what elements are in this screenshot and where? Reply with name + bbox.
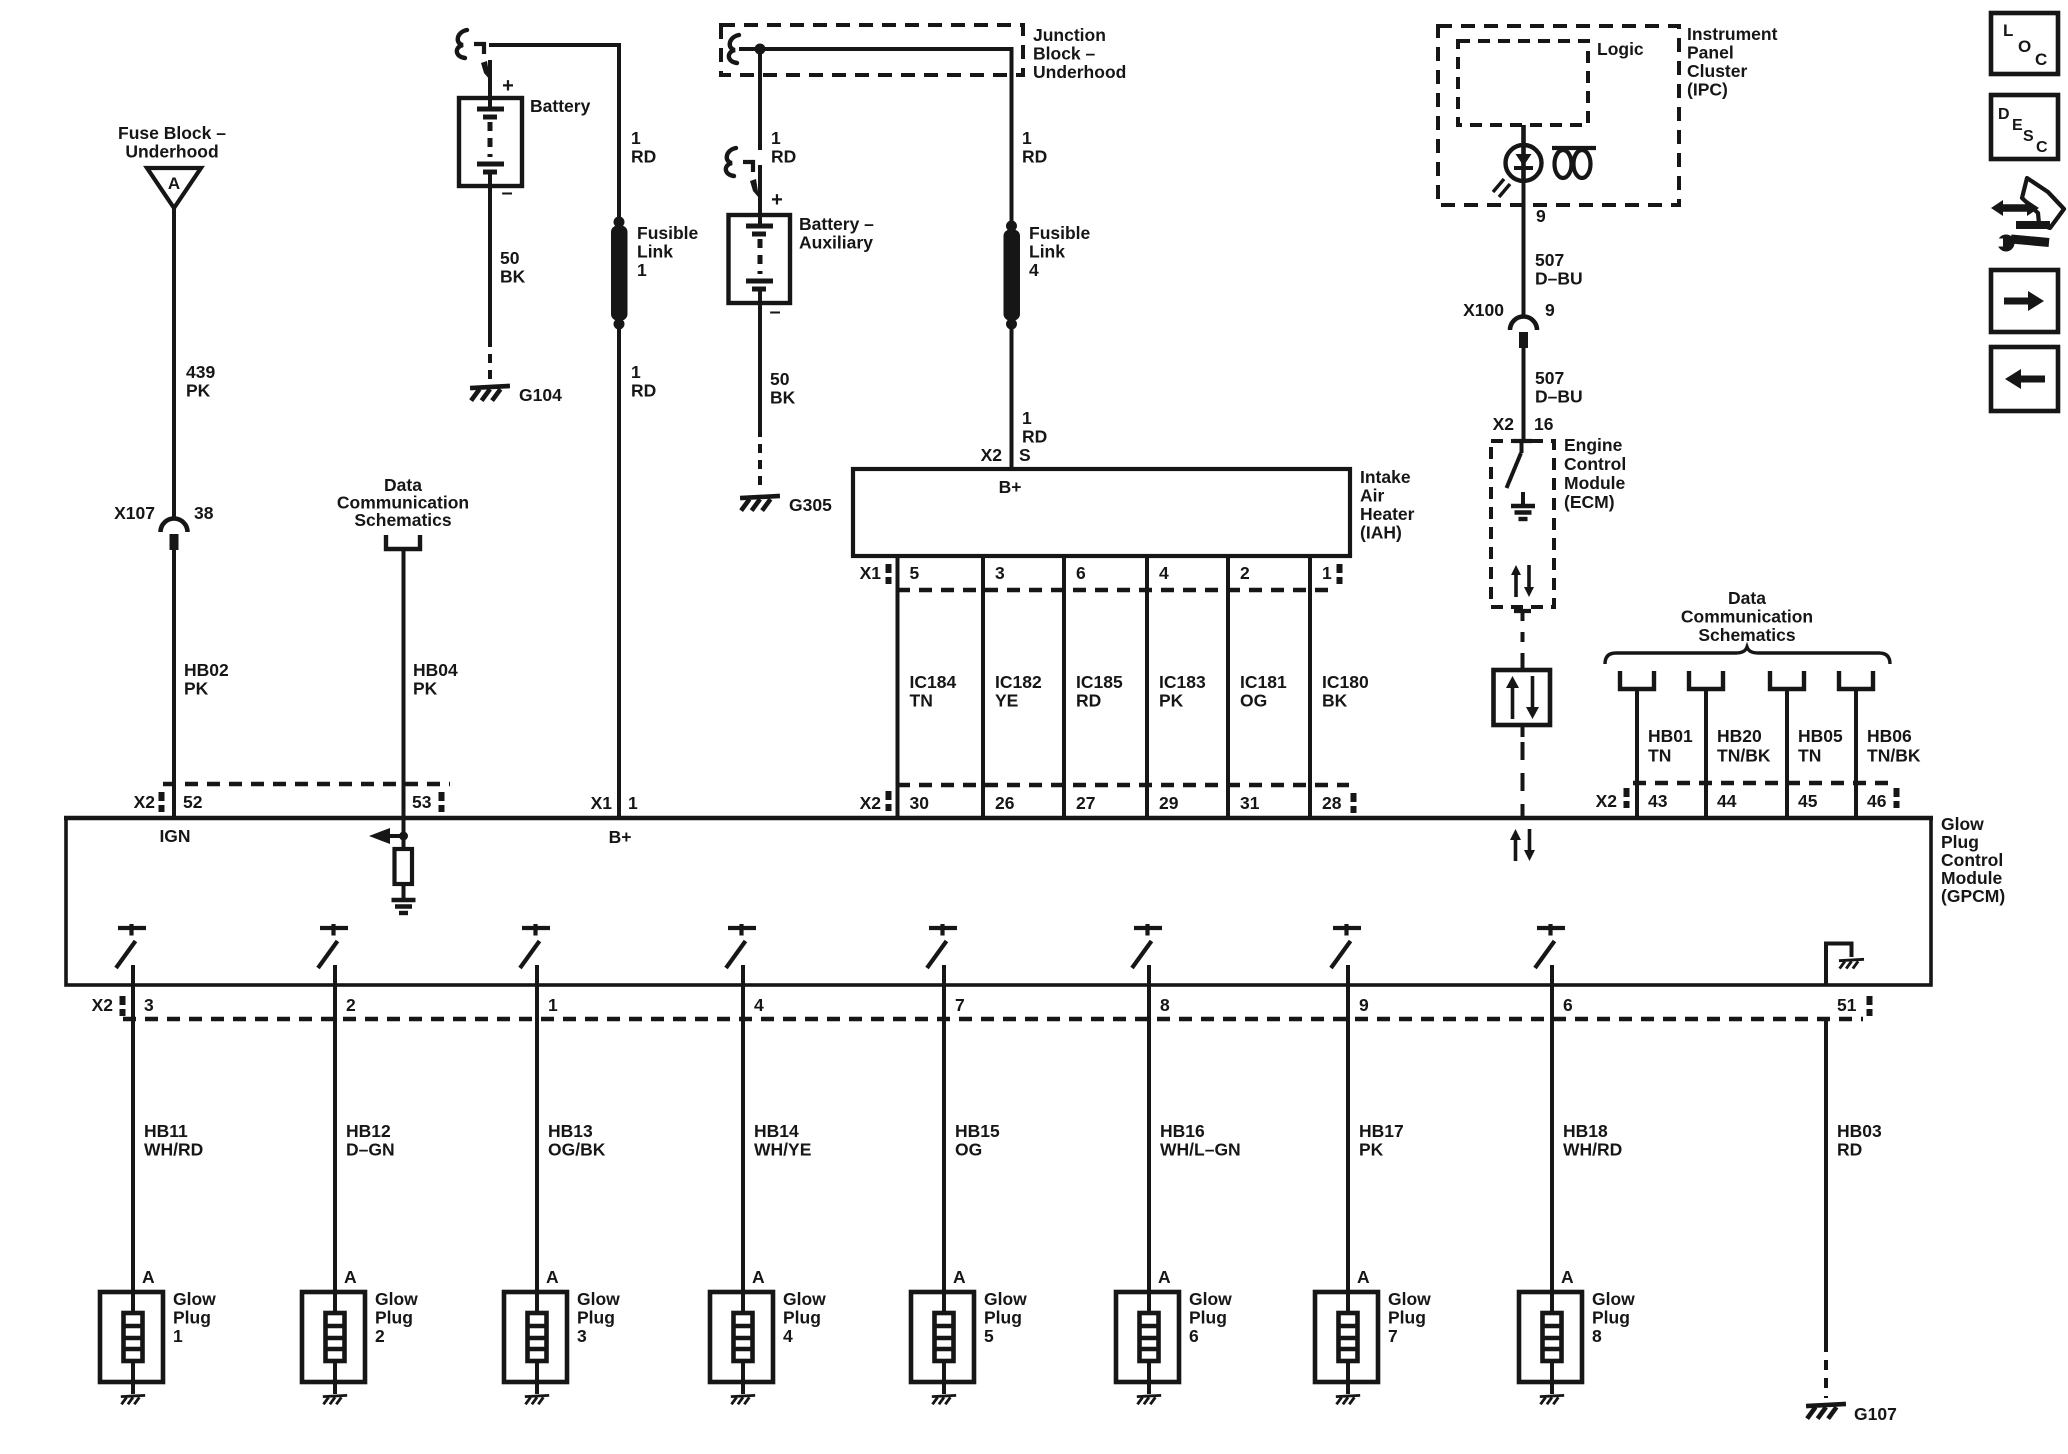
svg-text:Module: Module [1564,473,1626,493]
svg-text:IC183: IC183 [1159,672,1206,692]
svg-text:B+: B+ [609,827,632,847]
svg-text:–: – [501,182,512,204]
GPCM output switch 4 [728,926,756,930]
svg-text:2: 2 [375,1326,385,1346]
svg-text:9: 9 [1545,300,1555,320]
svg-text:X1: X1 [591,793,613,813]
glow plug 1 [100,1292,163,1382]
svg-text:A: A [752,1267,765,1287]
next icon (right arrow) [1991,270,2058,332]
wire IC182 to GPCM pin 26 [981,785,985,818]
svg-text:Underhood: Underhood [1033,62,1126,82]
wire 439 PK [172,208,176,519]
svg-text:7: 7 [955,995,965,1015]
glow plug 4 ground [731,1395,755,1404]
svg-text:X1: X1 [860,563,882,583]
glow plug 2 ground [323,1395,347,1404]
svg-text:52: 52 [183,792,203,812]
svg-text:IC182: IC182 [995,672,1042,692]
svg-text:X107: X107 [114,503,155,523]
wire HB20 TN/BK [1704,689,1708,783]
ECM pin tick [1513,439,1532,443]
svg-text:HB20: HB20 [1717,726,1762,746]
GPCM output switch 3 [522,926,550,930]
glow plug control module (GPCM) box [66,818,1931,985]
svg-text:Control: Control [1941,850,2003,870]
svg-text:3: 3 [144,995,154,1015]
svg-text:X100: X100 [1463,300,1504,320]
wire HB12 D–GN (glow plug 2) [333,985,337,1313]
svg-text:A: A [1357,1267,1370,1287]
svg-text:38: 38 [194,503,214,523]
svg-text:WH/L–GN: WH/L–GN [1160,1140,1241,1160]
junction block - underhood (dashed) [721,25,1023,75]
ECM internal ground [1521,492,1525,505]
svg-text:IC180: IC180 [1322,672,1369,692]
IAH pin 6 wire [1062,556,1066,590]
svg-text:Logic: Logic [1597,39,1644,59]
svg-text:3: 3 [577,1326,587,1346]
svg-text:S: S [1019,445,1031,465]
wire 507 D-BU to ECM [1522,348,1526,441]
interrupt symbol (battery auxiliary feed) [726,148,736,176]
svg-text:507: 507 [1535,250,1564,270]
svg-text:S: S [2023,128,2034,145]
svg-text:(IAH): (IAH) [1360,523,1402,543]
svg-text:OG: OG [1240,691,1267,711]
svg-text:Fuse Block –: Fuse Block – [118,123,226,143]
svg-text:50: 50 [770,369,790,389]
svg-text:Glow: Glow [375,1289,418,1309]
svg-text:1: 1 [548,995,558,1015]
svg-text:Auxiliary: Auxiliary [799,233,873,253]
svg-text:TN: TN [1798,746,1821,766]
svg-text:Plug: Plug [375,1308,413,1328]
svg-text:Link: Link [637,242,673,262]
svg-text:507: 507 [1535,368,1564,388]
svg-text:RD: RD [1837,1140,1862,1160]
ECM bottom pin tick [1514,609,1531,613]
svg-text:Engine: Engine [1564,435,1623,455]
svg-text:2: 2 [1240,563,1250,583]
glow plug 8 ground [1540,1395,1564,1404]
wire IC183 to GPCM pin 29 [1145,785,1149,818]
svg-text:D–BU: D–BU [1535,269,1583,289]
off-page connector (HB20) [1689,671,1723,689]
svg-text:50: 50 [500,248,520,268]
svg-text:HB06: HB06 [1867,726,1912,746]
battery feed interrupt symbol [457,30,467,58]
svg-text:OG: OG [955,1140,982,1160]
svg-text:A: A [1561,1267,1574,1287]
svg-text:HB04: HB04 [413,660,458,680]
svg-text:8: 8 [1160,995,1170,1015]
svg-text:Plug: Plug [1941,832,1979,852]
svg-text:31: 31 [1240,793,1260,813]
svg-text:27: 27 [1076,793,1095,813]
GPCM output switch 5 [929,926,957,930]
svg-text:A: A [168,174,180,193]
fusible link 4 [1006,221,1017,232]
GPCM output switch 1 [118,926,146,930]
svg-text:O: O [2018,37,2031,56]
svg-text:6: 6 [1076,563,1086,583]
wire HB06 to GPCM pin 46 [1854,783,1858,818]
svg-text:1: 1 [637,260,647,280]
wire to battery auxiliary [758,49,762,150]
wire HB20 to GPCM pin 44 [1704,783,1708,818]
svg-text:26: 26 [995,793,1015,813]
glow plug 4 [710,1292,773,1382]
wire HB11 WH/RD (glow plug 1) [131,985,135,1313]
wire HB16 WH/L–GN (glow plug 6) [1147,985,1151,1313]
svg-text:Plug: Plug [1388,1308,1426,1328]
svg-text:(ECM): (ECM) [1564,492,1615,512]
svg-text:OG/BK: OG/BK [548,1140,606,1160]
GPCM output switch 8 [1537,926,1565,930]
glow plug 1 ground [121,1395,145,1404]
svg-text:Glow: Glow [173,1289,216,1309]
svg-text:G305: G305 [789,495,832,515]
svg-text:A: A [953,1267,966,1287]
svg-text:WH/RD: WH/RD [144,1140,203,1160]
svg-text:6: 6 [1563,995,1573,1015]
svg-text:Plug: Plug [577,1308,615,1328]
battery B2 - auxiliary [729,215,791,303]
GPCM output switch 2 [320,926,348,930]
wire battery positive to fusible link 1 [489,43,620,47]
svg-text:Junction: Junction [1033,25,1106,45]
svg-text:16: 16 [1534,414,1554,434]
svg-text:Cluster: Cluster [1687,61,1747,81]
svg-text:YE: YE [995,691,1018,711]
svg-text:RD: RD [631,381,656,401]
indicator light rays [1493,179,1504,192]
svg-text:Schematics: Schematics [354,510,452,530]
svg-text:Module: Module [1941,868,2003,888]
svg-text:X2: X2 [860,793,882,813]
svg-text:Air: Air [1360,486,1385,506]
svg-text:D–GN: D–GN [346,1140,395,1160]
svg-text:A: A [142,1267,155,1287]
glow plug 2 [302,1292,365,1382]
svg-text:BK: BK [770,388,796,408]
svg-text:Glow: Glow [1388,1289,1431,1309]
svg-text:9: 9 [1359,995,1369,1015]
svg-text:1: 1 [631,362,641,382]
GPCM internal serial data arrows [1514,838,1518,861]
svg-text:HB14: HB14 [754,1121,799,1141]
svg-text:X2: X2 [134,792,156,812]
svg-text:BK: BK [500,267,526,287]
svg-text:Plug: Plug [1189,1308,1227,1328]
wire HB03 RD to G107 [1824,1019,1828,1342]
svg-text:1: 1 [173,1326,183,1346]
GPCM output switch 7 [1333,926,1361,930]
wait-to-start indicator lamp [1521,125,1526,146]
IAH pin 3 wire [981,556,985,590]
svg-text:Block –: Block – [1033,44,1096,64]
svg-text:1: 1 [628,793,638,813]
svg-text:1: 1 [1022,408,1032,428]
svg-text:WH/RD: WH/RD [1563,1140,1622,1160]
wire IPC pin 9 [1522,181,1526,318]
engine control module (ECM) dashed box [1491,441,1554,607]
dashed serial data wire [1521,611,1525,658]
wire HB13 OG/BK (glow plug 3) [535,985,539,1313]
wire junction block to fusible link 4 [1010,47,1014,226]
svg-text:6: 6 [1189,1326,1199,1346]
svg-text:RD: RD [1076,691,1101,711]
wire 50 BK to G104 [488,186,492,338]
wire pin 52 to GPCM [172,784,176,818]
glow plug 3 ground [525,1395,549,1404]
svg-text:PK: PK [184,679,209,699]
svg-text:Glow: Glow [984,1289,1027,1309]
wire IC185 RD [1062,590,1066,785]
feed interrupt symbol (junction block) [729,35,739,63]
svg-text:Battery: Battery [530,96,591,116]
svg-text:A: A [546,1267,559,1287]
IAH pin 2 wire [1226,556,1230,590]
svg-text:2: 2 [346,995,356,1015]
wire HB05 TN [1785,689,1789,783]
IAH pin 4 wire [1145,556,1149,590]
svg-text:8: 8 [1592,1326,1602,1346]
wire HB14 WH/YE (glow plug 4) [741,985,745,1313]
svg-text:Fusible: Fusible [1029,223,1091,243]
svg-text:28: 28 [1322,793,1342,813]
wire IC183 PK [1145,590,1149,785]
svg-text:1: 1 [771,128,781,148]
wire IC181 to GPCM pin 31 [1226,785,1230,818]
GPCM pin 53 pull-up arrow [402,818,406,849]
IAH pin 5 wire [896,556,900,590]
wire 1 RD to GPCM pin X1 1 [617,324,621,818]
svg-text:1: 1 [1022,128,1032,148]
wire HB05 to GPCM pin 45 [1785,783,1789,818]
svg-text:Intake: Intake [1360,467,1411,487]
glow plug 3 [504,1292,567,1382]
svg-text:WH/YE: WH/YE [754,1140,811,1160]
svg-text:44: 44 [1717,791,1737,811]
svg-text:PK: PK [186,381,211,401]
svg-text:Plug: Plug [783,1308,821,1328]
svg-text:Glow: Glow [783,1289,826,1309]
svg-text:Instrument: Instrument [1687,24,1778,44]
svg-text:L: L [2003,21,2013,40]
svg-text:Glow: Glow [1189,1289,1232,1309]
svg-text:45: 45 [1798,791,1818,811]
svg-text:X2: X2 [1596,791,1618,811]
svg-text:Heater: Heater [1360,504,1415,524]
svg-text:D: D [1998,106,2010,123]
GPCM internal ground (signal) [392,900,416,913]
svg-text:Link: Link [1029,242,1065,262]
wire HB15 OG (glow plug 5) [942,985,946,1313]
svg-text:Underhood: Underhood [125,142,218,162]
svg-text:X2: X2 [92,995,114,1015]
svg-text:TN: TN [910,691,933,711]
glow plug 5 [911,1292,974,1382]
svg-text:4: 4 [754,995,764,1015]
back icon (left arrow) [1991,347,2058,411]
ECM serial data arrows [1514,573,1518,597]
svg-text:PK: PK [413,679,438,699]
wire IC180 to GPCM pin 28 [1308,785,1312,818]
LOC icon [1991,13,2058,74]
svg-text:A: A [344,1267,357,1287]
wire HB18 WH/RD (glow plug 8) [1550,985,1554,1313]
svg-text:D–BU: D–BU [1535,387,1583,407]
svg-text:IGN: IGN [159,826,190,846]
svg-text:4: 4 [783,1326,793,1346]
svg-text:X2: X2 [1493,414,1515,434]
wire pin 53 to GPCM [402,784,406,818]
svg-text:HB12: HB12 [346,1121,391,1141]
IAH pin 1 wire [1308,556,1312,590]
svg-text:9: 9 [1536,206,1546,226]
svg-text:TN: TN [1648,746,1671,766]
ground G305 [740,496,780,511]
wire 1 RD to IAH [1010,324,1014,469]
svg-text:30: 30 [910,793,930,813]
svg-text:RD: RD [631,147,656,167]
svg-text:Communication: Communication [1681,607,1813,627]
svg-text:51: 51 [1837,995,1857,1015]
glow plug 8 [1519,1292,1582,1382]
svg-text:–: – [769,301,780,323]
svg-text:HB02: HB02 [184,660,229,680]
svg-text:HB03: HB03 [1837,1121,1882,1141]
wire HB04 PK [402,549,406,784]
off-page connector (HB01) [1620,671,1654,689]
svg-text:X2: X2 [981,445,1003,465]
svg-text:IC181: IC181 [1240,672,1287,692]
svg-text:Fusible: Fusible [637,223,699,243]
wire HB01 TN [1635,689,1639,783]
wire HB06 TN/BK [1854,689,1858,783]
svg-text:HB13: HB13 [548,1121,593,1141]
svg-text:HB17: HB17 [1359,1121,1404,1141]
svg-text:C: C [2036,139,2048,156]
svg-text:+: + [771,189,783,211]
glow plug 6 ground [1137,1395,1161,1404]
wire IC182 YE [981,590,985,785]
svg-text:HB11: HB11 [144,1121,188,1141]
ECM internal switch [1520,441,1524,453]
svg-text:IC185: IC185 [1076,672,1123,692]
svg-text:3: 3 [995,563,1005,583]
wire junction block bus [739,47,1012,51]
svg-text:Data: Data [1728,588,1766,608]
junction node [755,44,766,55]
svg-text:53: 53 [412,792,432,812]
svg-text:Schematics: Schematics [1698,625,1796,645]
svg-text:5: 5 [984,1326,994,1346]
svg-text:1: 1 [1322,563,1332,583]
svg-text:HB16: HB16 [1160,1121,1205,1141]
indicator coil [1552,146,1596,150]
wire HB17 PK (glow plug 7) [1346,985,1350,1313]
serial data interface box [1521,656,1525,670]
svg-text:TN/BK: TN/BK [1717,746,1771,766]
svg-text:1: 1 [631,128,641,148]
svg-text:Glow: Glow [1941,814,1984,834]
svg-text:Plug: Plug [984,1308,1022,1328]
wire HB01 to GPCM pin 43 [1635,783,1639,818]
wire 50 BK to G305 [758,303,762,428]
svg-text:Glow: Glow [1592,1289,1635,1309]
svg-text:G107: G107 [1854,1404,1897,1424]
svg-text:RD: RD [771,147,796,167]
glow plug 7 [1315,1292,1378,1382]
svg-text:5: 5 [910,563,920,583]
svg-text:(IPC): (IPC) [1687,80,1728,100]
svg-text:4: 4 [1159,563,1169,583]
logic dashed box [1458,41,1588,125]
fuse block triangle A [147,168,201,208]
svg-text:HB18: HB18 [1563,1121,1608,1141]
svg-text:Battery –: Battery – [799,214,874,234]
glow plug 7 ground [1336,1395,1360,1404]
intake air heater (IAH) box [853,469,1350,556]
GPCM output switch 6 [1134,926,1162,930]
glow plug 5 ground [932,1395,956,1404]
off-page connector (data communication left) [386,535,420,549]
svg-text:43: 43 [1648,791,1668,811]
DESC icon [1991,95,2058,159]
wire IC184 TN [896,590,900,785]
off-page connector (HB05) [1770,671,1804,689]
fusible link 1 [614,217,625,228]
svg-text:C: C [2035,50,2047,69]
svg-text:TN/BK: TN/BK [1867,746,1921,766]
quick-link wrench icon [2001,204,2029,212]
wire IC180 BK [1308,590,1312,785]
svg-text:E: E [2012,117,2023,134]
svg-text:BK: BK [1322,691,1348,711]
svg-text:4: 4 [1029,260,1039,280]
svg-text:IC184: IC184 [910,672,957,692]
brace [1605,647,1890,664]
dashed serial data wire to GPCM [1521,725,1525,737]
glow plug 6 [1116,1292,1179,1382]
svg-text:+: + [502,75,514,97]
wire HB02 PK [172,550,176,784]
wire IC184 to GPCM pin 30 [896,785,900,818]
svg-text:Panel: Panel [1687,43,1734,63]
svg-text:46: 46 [1867,791,1887,811]
instrument panel cluster (IPC) dashed box [1438,26,1679,205]
svg-text:G104: G104 [519,385,562,405]
GPCM internal ground (pin 51) [1824,942,1828,985]
svg-text:A: A [1158,1267,1171,1287]
svg-text:Glow: Glow [577,1289,620,1309]
svg-text:HB01: HB01 [1648,726,1693,746]
svg-text:Plug: Plug [173,1308,211,1328]
battery B1 [459,98,522,186]
svg-text:Control: Control [1564,454,1626,474]
wire IC181 OG [1226,590,1230,785]
svg-text:PK: PK [1159,691,1184,711]
off-page connector (HB06) [1839,671,1873,689]
svg-text:(GPCM): (GPCM) [1941,886,2005,906]
svg-text:HB05: HB05 [1798,726,1843,746]
ground G104 [470,386,510,401]
GPCM connector X2 row (pins 52 53) [163,782,450,786]
svg-text:RD: RD [1022,427,1047,447]
